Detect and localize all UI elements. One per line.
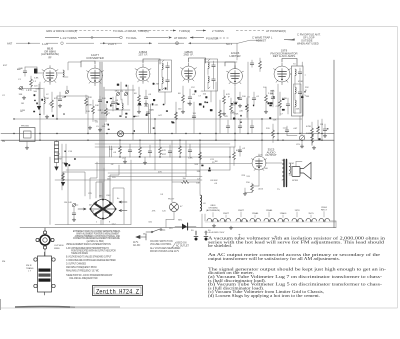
resistor R1 <box>30 79 33 87</box>
vertical wire x68 <box>67 166 69 225</box>
ground V3 <box>137 110 141 113</box>
labels V3 cluster <box>134 93 152 118</box>
vertical wire x216 <box>215 82 217 140</box>
socket pin dots <box>90 199 117 220</box>
tube V2 12AT7 converter <box>87 65 104 86</box>
wire y170 <box>66 169 230 171</box>
wire heater riser x205 <box>204 214 206 221</box>
dial line 2 arrowheads <box>169 36 193 38</box>
grid cap bracket V4 <box>189 58 206 63</box>
volume pot VR1 <box>299 135 304 140</box>
ground V4 <box>181 110 185 113</box>
resistor R12 <box>223 96 226 104</box>
resistor R17 <box>311 128 314 136</box>
wires caps row <box>228 120 252 133</box>
svg-text:THESE VOLTAGES: THESE VOLTAGES <box>71 252 88 255</box>
grid cap bracket V6 <box>282 59 297 66</box>
label volume <box>293 128 312 146</box>
coil L1 <box>44 97 45 104</box>
capacitor C19 <box>323 129 327 130</box>
wire ant to V1 <box>25 67 43 73</box>
trimmer C4 <box>65 90 69 94</box>
wire C1 <box>24 67 26 76</box>
heater labels <box>206 205 328 215</box>
IF transformer side view body <box>38 256 52 292</box>
component blob layer <box>33 83 328 172</box>
wires limiter cluster <box>224 90 254 120</box>
ground antenna <box>22 96 26 99</box>
tube V1 6BJ6 RF amp <box>42 66 58 85</box>
svg-text:AND RMS LIT FREQUENCY 455 KC: AND RMS LIT FREQUENCY 455 KC <box>66 266 97 269</box>
resistor R32 cathode <box>251 184 254 192</box>
vertical wire x248 <box>247 62 249 134</box>
socket bottom stub <box>102 219 104 225</box>
vertical wire x186 <box>185 140 187 176</box>
resistor R5 <box>92 106 95 114</box>
speaker SP1 <box>292 163 311 180</box>
heater grounds <box>212 224 216 227</box>
capacitor C15 <box>238 98 242 99</box>
T2 primary coil <box>162 63 163 70</box>
vertical wire x300 double <box>300 62 302 134</box>
capacitor C7 <box>111 102 115 103</box>
phono jack box <box>20 128 36 142</box>
capacitor C13 <box>188 97 192 98</box>
label C35 C36 <box>191 230 211 232</box>
tube V1 label <box>41 47 59 60</box>
grid cap bracket V3 <box>143 59 160 64</box>
socket riser wires <box>63 162 124 224</box>
grid cap bracket V5 <box>225 62 235 69</box>
vertical wire x40 <box>39 82 41 140</box>
T4 lug labels <box>293 64 307 98</box>
capacitor C6 <box>98 100 102 101</box>
wire y119 <box>14 118 302 120</box>
heater V5 <box>278 218 289 222</box>
resistor R27 <box>179 146 182 154</box>
resistor R6 <box>105 108 108 116</box>
capacitor C31 <box>188 150 192 151</box>
T4 coil mid <box>295 87 296 94</box>
wire phono <box>26 142 28 147</box>
vertical wire x262 to V7 grid <box>261 119 263 156</box>
svg-text:DIAL AND ALL FREQUENCY 600: DIAL AND ALL FREQUENCY 600 <box>69 277 98 280</box>
vertical wire x66 <box>65 144 67 163</box>
ground loopstick <box>54 167 58 171</box>
ground audio <box>243 192 247 195</box>
right instruction paragraph 3 <box>208 266 387 298</box>
vertical wire x278 <box>277 84 279 140</box>
wire bus B+ y140 <box>1 139 334 141</box>
vertical wire x334 right bus <box>333 60 335 228</box>
T4 inner wires <box>295 68 300 114</box>
wires am hanging <box>120 141 200 164</box>
wire y96 V1-V2 <box>57 95 88 97</box>
dial line 2 pulley <box>120 36 123 39</box>
vertical wire x57 <box>56 96 58 119</box>
page right edge <box>397 27 399 309</box>
wire bus AVC y133.5 <box>1 133 334 135</box>
page top edge <box>0 26 398 28</box>
capacitor C16 <box>252 98 256 99</box>
wires V6 cluster <box>266 88 288 116</box>
heater V1 <box>207 218 218 222</box>
svg-text:B. VOLTAGE AND ITS VALUES STA: B. VOLTAGE AND ITS VALUES STANDARD OUTPU… <box>66 255 112 258</box>
wire R32 <box>245 183 252 193</box>
tube V7 35C5 audio output <box>252 154 267 171</box>
left alignment notes block <box>66 230 121 280</box>
label pilot <box>168 199 183 209</box>
T4 coil top <box>295 69 296 76</box>
labels audio <box>236 128 270 184</box>
tube V5 12AU6 limiter <box>227 66 244 87</box>
wire socket rail y224.5 <box>55 224 131 226</box>
trimmer C2 <box>19 86 23 90</box>
ground C7 <box>98 128 102 131</box>
vertical wire x230 <box>229 147 231 170</box>
filter choke L8 <box>200 195 202 211</box>
label right of T4 <box>305 87 309 92</box>
on-off switch S1 <box>146 229 165 232</box>
model label box Zenith H724 Z <box>93 286 143 296</box>
resistor R10 <box>182 95 185 103</box>
vertical wire x155 <box>154 119 156 170</box>
heater V6 <box>292 218 303 222</box>
ground am2 <box>143 161 147 164</box>
output transformer T5 <box>282 160 291 187</box>
wires V2 cluster <box>86 90 126 122</box>
ground am1 <box>123 160 127 163</box>
label IF side <box>26 265 34 273</box>
resistor R36 left column <box>62 173 65 181</box>
heater V8 <box>319 218 330 222</box>
wire V7 cathode down <box>252 170 259 187</box>
wire y88.5 left <box>18 88 43 90</box>
ground below V1 <box>45 115 49 118</box>
loopstick L6 body <box>55 142 59 163</box>
capacitor C22 <box>271 97 275 98</box>
wire y173 <box>108 172 186 174</box>
trimmer osc C9 <box>124 92 128 96</box>
loopstick top wire <box>56 140 58 166</box>
caps row between V5 V6 <box>250 63 254 64</box>
vertical wire x235 limiter <box>234 87 236 147</box>
wire socket bottom stub <box>100 220 102 225</box>
tube V7 label <box>265 148 277 158</box>
label speaker <box>290 163 298 182</box>
loop lugs <box>36 231 54 249</box>
ground left column dark <box>61 182 65 186</box>
vertical wire x200 choke <box>199 140 201 194</box>
resistor R8 <box>138 95 141 103</box>
capacitor C11 <box>144 97 148 98</box>
loop hub <box>40 235 50 245</box>
coil blob before V1 <box>34 69 38 74</box>
labels am <box>109 149 218 185</box>
resistor R21 <box>279 100 282 108</box>
wires T3 <box>208 61 214 102</box>
T3 primary coil <box>208 62 209 69</box>
resistor R2 <box>51 100 54 108</box>
svg-text:D. OUTPUT CHANGES: D. OUTPUT CHANGES <box>66 262 87 265</box>
wire transformer-speaker <box>289 167 292 176</box>
svg-text:series with the hot lead will: series with the hot lead will serve for … <box>208 239 384 244</box>
vertical wire x63 left of socket <box>62 172 64 181</box>
wires det cluster <box>312 120 325 146</box>
wires V1 cluster <box>44 86 67 115</box>
grid cap bracket V2 <box>81 61 95 67</box>
right instruction paragraph 1 <box>208 236 385 249</box>
osc coil circle T1 <box>118 131 124 137</box>
T4 coil bottom <box>295 100 296 107</box>
left margin tiny text <box>2 95 6 263</box>
right instruction paragraph 2 <box>208 252 380 261</box>
capacitor C1 <box>23 71 27 72</box>
wires audio <box>234 124 273 166</box>
ground V6a <box>264 110 268 113</box>
row3 diagonal to wave trap <box>224 40 262 43</box>
labels limiter <box>226 94 260 104</box>
tube V6 label <box>271 49 298 59</box>
electrolytic C36 <box>204 231 208 241</box>
power plug arrow <box>136 235 146 238</box>
labels V1 cluster <box>46 94 66 100</box>
wire V6 to T4 <box>290 73 292 75</box>
resistor R30 <box>233 152 236 160</box>
resistor R26 <box>159 147 162 155</box>
ground volume <box>300 145 304 148</box>
wire top tie y61 <box>95 60 158 62</box>
resistor R4 <box>85 98 88 106</box>
pilot lamp PL1 <box>170 203 179 212</box>
tube V3 label <box>138 50 148 57</box>
note block power <box>150 241 181 253</box>
resistor R20 <box>265 95 268 103</box>
vertical wire x322 short <box>321 119 323 140</box>
label power <box>133 242 141 247</box>
T3 caps <box>212 65 216 66</box>
wires V4 cluster <box>183 86 190 110</box>
wire V7 plate to output transformer <box>266 162 283 164</box>
resistor R34 surge <box>181 181 189 184</box>
dial line 2 <box>45 37 230 40</box>
labels V6 cluster <box>268 93 288 100</box>
wave trap drop wire <box>205 43 237 62</box>
ground C3 <box>58 104 62 107</box>
divider slash <box>172 242 176 248</box>
heater V1b <box>220 218 231 222</box>
resistor R31 <box>272 130 275 138</box>
ground socket left <box>72 218 76 221</box>
heater wire <box>205 221 336 223</box>
trimmer C38 <box>72 203 76 207</box>
vertical wire x131 socket <box>130 160 132 225</box>
vertical wire x172 pilot <box>171 140 173 202</box>
wires T2 <box>162 62 168 104</box>
caps row y128 <box>226 126 230 127</box>
wire VR1 <box>302 132 312 145</box>
vertical pair x110 <box>110 146 112 157</box>
socket right arrow upper <box>119 201 127 203</box>
ground C11 <box>144 102 148 105</box>
wire y147 <box>95 146 235 148</box>
wire y163 <box>95 163 252 165</box>
trimmer osc C8 <box>116 92 120 96</box>
svg-text:C. INDICATED ARE CONTROLLED A: C. INDICATED ARE CONTROLLED AVERAGE RECT… <box>66 259 116 262</box>
row3 pulley <box>61 42 64 45</box>
ground x39 dark <box>37 106 41 110</box>
tube V3 12BA6 1st IF <box>135 64 151 84</box>
wire y157 <box>57 156 230 158</box>
tube V4 label <box>183 50 193 57</box>
socket labels <box>68 193 120 204</box>
label loopstick <box>68 151 73 153</box>
component value labels layer <box>19 68 310 235</box>
tube V6 19T8 discriminator <box>274 63 291 85</box>
ground C13 <box>188 102 192 105</box>
ground limiter2 <box>238 104 242 107</box>
heater V7 <box>306 218 317 222</box>
IF transformer T2 box <box>159 60 172 92</box>
T2 secondary coil <box>162 77 163 84</box>
left edge mark <box>0 299 2 310</box>
svg-text:output transformer will be sat: output transformer will be satisfactory … <box>208 256 340 261</box>
capacitor C33 <box>238 150 242 151</box>
wires V3 cluster <box>139 87 146 110</box>
note used on AC outlet <box>176 243 189 248</box>
IF side view lugs <box>34 258 55 288</box>
label ant values <box>17 68 37 83</box>
resistor R25 <box>139 147 142 155</box>
tube V4 12BA6 2nd IF <box>181 63 197 83</box>
capacitor C30 <box>168 151 172 152</box>
T4 caps <box>298 72 302 73</box>
T2 slug arrows <box>162 60 164 90</box>
capacitor C24 .047 <box>285 130 289 131</box>
wire ground rail y227.5 <box>20 227 336 229</box>
heater V4 <box>264 218 275 222</box>
wire L3 <box>57 62 81 77</box>
ground det1 <box>323 134 327 137</box>
capacitor C3 <box>58 99 62 100</box>
heater junction dots <box>217 220 219 222</box>
wire R1 <box>30 76 32 91</box>
svg-text:(per MFG. Co. 5614): (per MFG. Co. 5614) <box>87 240 104 243</box>
label loop <box>54 245 64 250</box>
socket body diamond <box>90 199 116 219</box>
svg-text:(d) Loosen Slugs by applying a: (d) Loosen Slugs by applying a hot iron … <box>208 293 320 298</box>
osc coil L4 <box>122 103 123 110</box>
socket left arrow <box>78 208 86 210</box>
svg-text:FINAL RMS LIT FREQUENCY 10.7 M: FINAL RMS LIT FREQUENCY 10.7 MC <box>66 269 99 272</box>
vertical wire x88 <box>87 96 89 134</box>
discriminator box T4 inner wall <box>294 84 302 113</box>
svg-text:USING ALIGNMENT RADIO-S LISTEN: USING ALIGNMENT RADIO-S LISTENED POSITIO… <box>66 243 111 246</box>
resistor R24 <box>119 146 122 154</box>
vertical wire x133 <box>132 85 134 140</box>
vertical wire x202 low <box>201 214 203 228</box>
labels V4 cluster <box>178 93 196 96</box>
heater V3 <box>250 218 261 222</box>
vertical wire x62 <box>61 144 63 190</box>
ground phono <box>25 146 29 149</box>
dial line 1 <box>75 30 264 32</box>
wave trap lead line row3 <box>16 42 224 44</box>
socket right arrow lower <box>119 210 127 212</box>
wire loop stem <box>44 249 46 256</box>
T3 slug arrows <box>208 59 210 89</box>
heater V2 <box>236 218 247 222</box>
wires socket left <box>74 205 78 218</box>
IF section small caps <box>146 112 150 113</box>
scanner smudge bottom left <box>15 306 75 309</box>
T2 caps <box>166 66 170 67</box>
dial line 1 arrowheads <box>173 30 206 32</box>
resistor R13 <box>230 104 233 112</box>
ground limiter1 <box>222 112 226 115</box>
selenium rectifier SR1 <box>175 223 196 230</box>
IF section tie verticals <box>149 100 221 134</box>
wire y144 <box>95 143 230 145</box>
discriminator box T4 outer <box>292 66 304 116</box>
wire y176.5 <box>108 176 202 178</box>
vertical wire x39 <box>38 84 40 106</box>
heater end wire down <box>330 221 336 228</box>
labels V2 cluster <box>88 91 124 107</box>
wire R34 <box>172 181 200 183</box>
svg-text:THESE POINT DC - 400 KC STAND: THESE POINT DC - 400 KC STANDARD BROADCA… <box>66 274 113 277</box>
labels det cluster <box>306 124 323 128</box>
svg-text:be shielded.: be shielded. <box>208 243 232 248</box>
wire C24 <box>283 126 297 136</box>
wire speaker top cap <box>296 162 302 167</box>
electrolytic C35 <box>194 231 198 241</box>
row3 arrowheads <box>28 42 191 44</box>
IF side view bands <box>39 269 51 272</box>
coil L3 V1 plate <box>63 70 64 77</box>
tube V5 label <box>229 51 240 58</box>
resistor R14 <box>246 104 249 112</box>
vertical wire x50 <box>49 157 51 225</box>
svg-text:Zenith H724 Z: Zenith H724 Z <box>96 288 139 295</box>
ground x66 <box>64 163 68 167</box>
IF side view center line <box>44 252 46 295</box>
heater label ticks <box>213 212 324 218</box>
capacitor C28 <box>128 150 132 151</box>
ground det2 <box>312 146 316 149</box>
page bottom edge <box>0 307 398 309</box>
socket spokes <box>95 204 112 215</box>
capacitor C23 <box>286 104 290 105</box>
IF transformer T3 box <box>205 59 218 91</box>
resistor R28 <box>199 152 202 160</box>
junction dots on buses <box>13 118 322 157</box>
loop stem wires <box>39 228 51 246</box>
osc section tie wires <box>105 82 135 110</box>
vertical wire trio x100-104 <box>100 62 104 198</box>
capacitor C29 <box>148 151 152 152</box>
capacitor C39 <box>72 213 76 214</box>
tube V2 label <box>86 53 104 60</box>
socket pin labels <box>96 206 110 224</box>
resistor R22 <box>311 135 314 143</box>
ground V2 cathode <box>88 126 92 129</box>
row3 circled plus pulley <box>176 42 179 45</box>
wire pilot <box>166 202 174 228</box>
wire y180 <box>55 179 202 181</box>
T3 secondary coil <box>208 76 209 83</box>
resistor R16 <box>317 126 320 134</box>
